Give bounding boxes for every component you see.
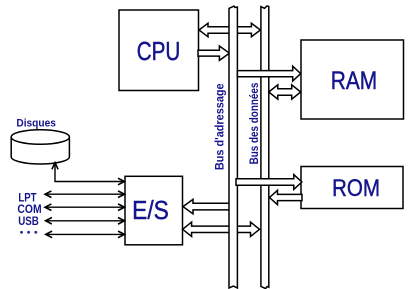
disk cylinder Disques [11,130,69,164]
svg-text:E/S: E/S [132,197,169,225]
label dots (more ports) [20,231,37,234]
block E/S [125,176,183,245]
hollow arrow address bus to E/S (left) [183,199,230,213]
block CPU [119,10,199,91]
svg-text:Bus des données: Bus des données [247,82,261,164]
svg-text:LPT: LPT [18,192,36,204]
wire COM to E/S (double-headed) [45,204,125,211]
svg-text:CPU: CPU [137,36,181,66]
wire disk to E/S (bent, arrowheads both ends) [52,163,125,185]
svg-text:USB: USB [18,216,39,228]
wire dots to E/S (double-headed) [46,231,125,238]
hollow arrow address bus to RAM (right) [237,66,300,81]
svg-text:ROM: ROM [332,175,380,202]
bus address (vertical, torn ends) [229,6,237,288]
wire LPT to E/S (double-headed) [45,191,125,198]
hollow arrow data bus to RAM (double-headed) [269,85,301,99]
hollow arrow CPU to address bus (right) [198,46,229,60]
hollow arrow CPU to data bus (double-headed) [199,23,260,37]
svg-text:COM: COM [17,204,41,216]
block RAM [301,40,404,119]
svg-text:Bus d'adressage: Bus d'adressage [212,83,226,170]
svg-text:RAM: RAM [331,67,377,95]
bus data (vertical, torn ends) [261,6,269,289]
wire USB to E/S (double-headed) [46,218,125,225]
hollow arrow E/S to data bus (double-headed) [183,222,260,236]
svg-text:Disques: Disques [16,117,56,129]
hollow arrow address bus to ROM (right) [236,175,302,190]
block ROM [301,167,403,209]
hollow arrow ROM to data bus (left) [270,190,303,204]
